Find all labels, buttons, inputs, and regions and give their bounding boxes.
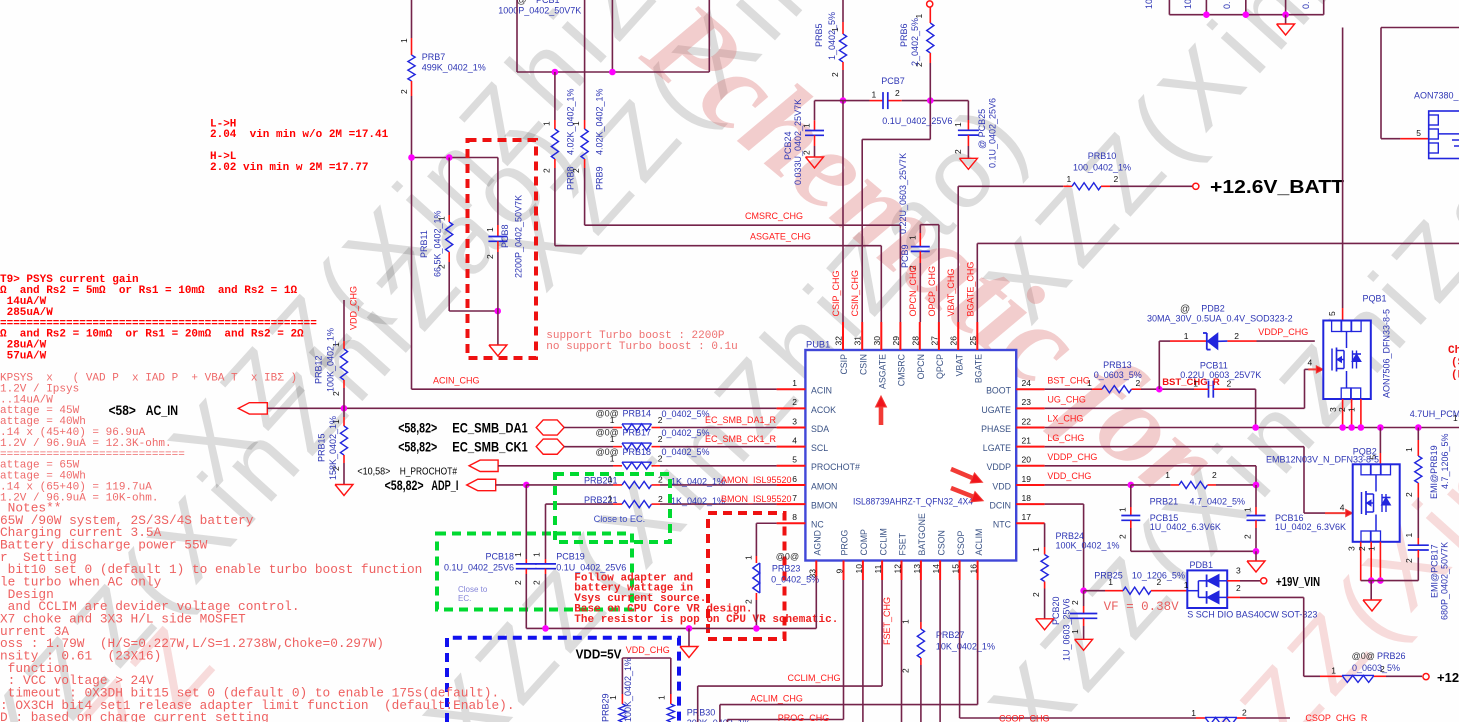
svg-text:SDA: SDA bbox=[811, 424, 829, 434]
svg-text:4.7UH_PCM: 4.7UH_PCM bbox=[1410, 409, 1459, 419]
svg-text:1: 1 bbox=[610, 434, 615, 444]
svg-text:0.1U_0402_25V6: 0.1U_0402_25V6 bbox=[444, 563, 514, 573]
svg-text:2: 2 bbox=[953, 149, 963, 154]
svg-text:PRB15: PRB15 bbox=[317, 433, 327, 462]
svg-text:31: 31 bbox=[853, 336, 863, 346]
svg-text:PCB20: PCB20 bbox=[1051, 596, 1061, 625]
svg-text:VDD_CHG: VDD_CHG bbox=[626, 645, 670, 655]
svg-text:LX_CHG: LX_CHG bbox=[1047, 414, 1083, 424]
svg-text:H_PROCHOT#: H_PROCHOT# bbox=[400, 466, 457, 478]
svg-text:PCB19: PCB19 bbox=[556, 552, 585, 562]
svg-text:EC_SMB_DA1: EC_SMB_DA1 bbox=[452, 420, 528, 435]
svg-text:ADP_I: ADP_I bbox=[431, 478, 458, 493]
svg-text:1: 1 bbox=[901, 619, 911, 624]
svg-text:ISL88739AHRZ-T_QFN32_4X4: ISL88739AHRZ-T_QFN32_4X4 bbox=[853, 497, 973, 507]
svg-text:CSIN: CSIN bbox=[858, 354, 868, 375]
svg-text:ACOK: ACOK bbox=[811, 405, 836, 415]
svg-text:OPCN: OPCN bbox=[916, 354, 926, 379]
svg-text:PCB8: PCB8 bbox=[500, 224, 510, 248]
svg-text:5: 5 bbox=[1416, 128, 1421, 138]
svg-text:100K_0402_1%: 100K_0402_1% bbox=[326, 328, 336, 392]
svg-text:AMON_ISL95520: AMON_ISL95520 bbox=[721, 475, 792, 485]
svg-text:PRB6: PRB6 bbox=[899, 23, 909, 47]
svg-text:4.02K_0402_1%: 4.02K_0402_1% bbox=[595, 88, 605, 155]
svg-text:PROCHOT#: PROCHOT# bbox=[811, 462, 860, 472]
svg-text:BGATE_CHG: BGATE_CHG bbox=[965, 262, 975, 317]
svg-text:1: 1 bbox=[1184, 331, 1189, 341]
svg-text:COMP: COMP bbox=[859, 529, 869, 556]
svg-text:1: 1 bbox=[1404, 533, 1414, 538]
svg-text:12: 12 bbox=[893, 564, 903, 574]
svg-text:VDD: VDD bbox=[992, 481, 1011, 491]
svg-text:FSET: FSET bbox=[898, 532, 908, 555]
svg-text:<58,82>: <58,82> bbox=[398, 420, 437, 435]
svg-text:LG_CHG: LG_CHG bbox=[1047, 433, 1084, 443]
svg-text:VBAT_CHG: VBAT_CHG bbox=[946, 269, 956, 317]
svg-text:1: 1 bbox=[608, 494, 613, 504]
svg-text:20: 20 bbox=[1022, 455, 1032, 465]
svg-text:+12.6V_BATT: +12.6V_BATT bbox=[1210, 177, 1344, 197]
svg-text:1K_0402_1%: 1K_0402_1% bbox=[671, 496, 725, 506]
svg-text:LGATE: LGATE bbox=[983, 443, 1011, 453]
svg-text:S SCH DIO BAS40CW SOT-323: S SCH DIO BAS40CW SOT-323 bbox=[1187, 610, 1317, 620]
svg-text:PROG_CHG: PROG_CHG bbox=[778, 713, 830, 722]
svg-text:2: 2 bbox=[1243, 534, 1253, 539]
svg-text:2_0402_5%: 2_0402_5% bbox=[910, 18, 920, 66]
svg-text:1: 1 bbox=[1191, 708, 1196, 718]
svg-text:18: 18 bbox=[1022, 493, 1032, 503]
svg-text:BMON: BMON bbox=[811, 501, 837, 511]
svg-text:3: 3 bbox=[1347, 546, 1357, 551]
svg-text:0.: 0. bbox=[1301, 1, 1311, 9]
svg-text:SCL: SCL bbox=[811, 443, 828, 453]
svg-text:2200P_0402_50V7K: 2200P_0402_50V7K bbox=[514, 195, 524, 278]
svg-text:25: 25 bbox=[968, 336, 978, 346]
svg-text:ASGATE_CHG: ASGATE_CHG bbox=[750, 232, 811, 242]
svg-text:VDDP_CHG: VDDP_CHG bbox=[1258, 327, 1308, 337]
svg-text:VBAT: VBAT bbox=[954, 353, 964, 376]
svg-text:26: 26 bbox=[949, 336, 959, 346]
svg-text:DCIN: DCIN bbox=[989, 501, 1011, 511]
svg-text:NC: NC bbox=[811, 520, 824, 530]
svg-text:32: 32 bbox=[834, 336, 844, 346]
svg-text:2: 2 bbox=[542, 168, 552, 173]
svg-text:CSON: CSON bbox=[936, 530, 946, 555]
svg-text:23: 23 bbox=[1022, 397, 1032, 407]
svg-text:2: 2 bbox=[901, 668, 911, 673]
svg-text:1: 1 bbox=[914, 14, 924, 19]
svg-text:@0@: @0@ bbox=[596, 447, 619, 457]
svg-text:BATGONE: BATGONE bbox=[917, 513, 927, 555]
svg-text:2: 2 bbox=[1234, 331, 1239, 341]
svg-text:CSOP: CSOP bbox=[956, 530, 966, 555]
svg-text:680P_0402_50V7K: 680P_0402_50V7K bbox=[1440, 542, 1450, 620]
svg-text:EMI@PRB19: EMI@PRB19 bbox=[1429, 445, 1439, 499]
svg-text:1: 1 bbox=[1404, 447, 1414, 452]
svg-text:PRB12: PRB12 bbox=[314, 355, 324, 384]
svg-text:VDD=5V: VDD=5V bbox=[576, 647, 622, 662]
svg-text:100_0402_1%: 100_0402_1% bbox=[1073, 163, 1131, 173]
svg-text:PRB17: PRB17 bbox=[623, 428, 652, 438]
svg-text:PRB29: PRB29 bbox=[601, 693, 611, 722]
svg-text:EC_SMB_DA1_R: EC_SMB_DA1_R bbox=[705, 415, 777, 425]
svg-text:1: 1 bbox=[744, 555, 754, 560]
svg-text:ACLIM_CHG: ACLIM_CHG bbox=[750, 694, 803, 704]
svg-text:2: 2 bbox=[792, 397, 797, 407]
svg-text:@0@: @0@ bbox=[596, 428, 619, 438]
svg-text:5: 5 bbox=[1327, 311, 1337, 316]
svg-text:EC_SMB_CK1_R: EC_SMB_CK1_R bbox=[705, 434, 777, 444]
svg-text:2: 2 bbox=[744, 599, 754, 604]
svg-text:AGND: AGND bbox=[813, 530, 823, 555]
svg-text:1: 1 bbox=[1031, 547, 1041, 552]
svg-text:22: 22 bbox=[1022, 416, 1032, 426]
svg-text:1_0402_5%: 1_0402_5% bbox=[827, 12, 837, 60]
svg-text:7: 7 bbox=[792, 493, 797, 503]
svg-text:PRB5: PRB5 bbox=[814, 23, 824, 47]
svg-text:2.04 vin min w/o 2M =17.41: 2.04 vin min w/o 2M =17.41 bbox=[210, 129, 389, 141]
svg-text:1: 1 bbox=[657, 695, 667, 700]
svg-text:4.7_1206_5%: 4.7_1206_5% bbox=[1440, 433, 1450, 489]
svg-text:VDD_CHG: VDD_CHG bbox=[1047, 471, 1091, 481]
svg-text:FSET_CHG: FSET_CHG bbox=[882, 597, 892, 645]
svg-text:VDDP: VDDP bbox=[987, 462, 1012, 472]
svg-text:PCB7: PCB7 bbox=[881, 76, 905, 86]
svg-text:1: 1 bbox=[1331, 666, 1336, 676]
svg-text:2: 2 bbox=[1031, 592, 1041, 597]
svg-text:10: 10 bbox=[1183, 0, 1193, 9]
svg-text:2: 2 bbox=[1236, 583, 1241, 593]
svg-text:0.: 0. bbox=[1222, 1, 1232, 9]
svg-text:CSOP_CHG_R: CSOP_CHG_R bbox=[1305, 713, 1368, 722]
svg-text:8: 8 bbox=[792, 512, 797, 522]
svg-text:+12.6: +12.6 bbox=[1437, 670, 1459, 685]
svg-text:1: 1 bbox=[792, 378, 797, 388]
svg-text:CCLIM: CCLIM bbox=[878, 528, 888, 555]
svg-text:0_0603_5%: 0_0603_5% bbox=[1094, 370, 1142, 380]
svg-text:0_0603_5%: 0_0603_5% bbox=[1352, 663, 1400, 673]
svg-text:D : based on charge current se: D : based on charge current setting bbox=[0, 710, 269, 722]
svg-text:28: 28 bbox=[910, 336, 920, 346]
svg-text:11: 11 bbox=[873, 564, 883, 573]
svg-text:0.1U_0402_25V6: 0.1U_0402_25V6 bbox=[556, 563, 626, 573]
svg-text:PCB11: PCB11 bbox=[1200, 361, 1228, 371]
svg-text:1: 1 bbox=[513, 552, 523, 557]
svg-text:4: 4 bbox=[1307, 358, 1312, 368]
svg-text:15: 15 bbox=[951, 564, 961, 574]
svg-text:10_1206_5%: 10_1206_5% bbox=[1132, 571, 1185, 581]
svg-text:2: 2 bbox=[571, 168, 581, 173]
svg-text:1: 1 bbox=[610, 453, 615, 463]
svg-text:EMB12N03V_N_DFN33-8-5: EMB12N03V_N_DFN33-8-5 bbox=[1266, 455, 1379, 465]
svg-text:2: 2 bbox=[513, 580, 523, 585]
svg-text:BOOT: BOOT bbox=[986, 386, 1012, 396]
svg-text:UGATE: UGATE bbox=[981, 405, 1011, 415]
svg-text:21: 21 bbox=[1022, 435, 1032, 445]
svg-text:4.7_0402_5%: 4.7_0402_5% bbox=[1190, 496, 1246, 506]
svg-text:4: 4 bbox=[792, 435, 797, 445]
svg-text:AON7506_DFN33-8-5: AON7506_DFN33-8-5 bbox=[1382, 309, 1392, 398]
svg-text:EC_SMB_CK1: EC_SMB_CK1 bbox=[452, 440, 528, 455]
svg-text:ACLIM: ACLIM bbox=[974, 529, 984, 556]
svg-text:2: 2 bbox=[1242, 708, 1247, 718]
svg-text:(D: (D bbox=[1451, 370, 1459, 382]
svg-text:13: 13 bbox=[912, 564, 922, 574]
svg-text:1: 1 bbox=[542, 121, 552, 126]
svg-text:CMSRC_CHG: CMSRC_CHG bbox=[745, 211, 803, 221]
svg-text:ACIN_CHG: ACIN_CHG bbox=[433, 376, 480, 386]
svg-text:OPCN_CHG: OPCN_CHG bbox=[908, 265, 918, 316]
svg-text:1U_0603_25V6: 1U_0603_25V6 bbox=[1062, 598, 1072, 661]
svg-text:1: 1 bbox=[1184, 580, 1189, 590]
svg-text:2: 2 bbox=[895, 88, 900, 98]
svg-text:1000P_0402_50V7K: 1000P_0402_50V7K bbox=[498, 5, 581, 15]
svg-text:AC_IN: AC_IN bbox=[146, 403, 178, 418]
svg-text:0.1U_0402_25V6: 0.1U_0402_25V6 bbox=[882, 116, 952, 126]
svg-text:PRB26: PRB26 bbox=[1377, 651, 1406, 661]
svg-text:@0@: @0@ bbox=[596, 409, 619, 419]
svg-text:10: 10 bbox=[854, 564, 864, 574]
svg-text:2.02 vin min w 2M =17.77: 2.02 vin min w 2M =17.77 bbox=[210, 162, 368, 174]
svg-text:1: 1 bbox=[1366, 546, 1376, 551]
svg-text:2: 2 bbox=[485, 254, 495, 259]
svg-text:1: 1 bbox=[953, 122, 963, 127]
svg-text:100K_0402_1%: 100K_0402_1% bbox=[1056, 541, 1120, 551]
svg-text:0.1U_0402_25V6: 0.1U_0402_25V6 bbox=[988, 98, 998, 168]
svg-text:2: 2 bbox=[1227, 379, 1232, 389]
svg-text:PRB201: PRB201 bbox=[584, 476, 618, 486]
svg-text:PRB7: PRB7 bbox=[422, 52, 446, 62]
svg-text:158K_0402_1%: 158K_0402_1% bbox=[328, 416, 338, 480]
svg-text:2: 2 bbox=[658, 494, 663, 504]
svg-text:57uA/W: 57uA/W bbox=[0, 351, 47, 363]
svg-text:ASGATE: ASGATE bbox=[878, 354, 888, 389]
svg-text:100K_0402_1%: 100K_0402_1% bbox=[623, 658, 633, 722]
svg-text:1: 1 bbox=[1243, 507, 1253, 512]
svg-text:AMON: AMON bbox=[811, 481, 837, 491]
svg-text:Close to EC.: Close to EC. bbox=[594, 514, 646, 524]
svg-text:19: 19 bbox=[1022, 474, 1032, 484]
svg-text:EC.: EC. bbox=[458, 594, 471, 603]
svg-text:PRB13: PRB13 bbox=[1103, 360, 1132, 370]
svg-text:1: 1 bbox=[872, 90, 877, 100]
svg-text:VF = 0.38V: VF = 0.38V bbox=[1104, 600, 1180, 614]
svg-text:3: 3 bbox=[792, 416, 797, 426]
svg-text:16: 16 bbox=[969, 564, 979, 574]
svg-text:1: 1 bbox=[908, 235, 918, 240]
svg-text:1: 1 bbox=[1117, 507, 1127, 512]
svg-text:<58,82>: <58,82> bbox=[385, 478, 424, 493]
svg-text:0_0402_5%: 0_0402_5% bbox=[662, 447, 710, 457]
svg-text:2: 2 bbox=[802, 150, 812, 155]
svg-text:PROG: PROG bbox=[840, 529, 850, 555]
svg-text:0_0402_5%: 0_0402_5% bbox=[662, 428, 710, 438]
svg-text:24: 24 bbox=[1022, 378, 1032, 388]
svg-text:2: 2 bbox=[1117, 534, 1127, 539]
svg-text:3: 3 bbox=[1236, 566, 1241, 576]
svg-text:VDD_CHG: VDD_CHG bbox=[349, 286, 359, 330]
svg-text:PHASE: PHASE bbox=[981, 424, 1011, 434]
svg-text:30: 30 bbox=[872, 336, 882, 346]
svg-text:<58>: <58> bbox=[109, 403, 136, 418]
svg-text:27: 27 bbox=[929, 336, 939, 346]
svg-text:1: 1 bbox=[1346, 407, 1356, 412]
svg-text:1: 1 bbox=[532, 552, 542, 557]
svg-text:30MA_30V_0.5UA_0.4V_SOD323-2: 30MA_30V_0.5UA_0.4V_SOD323-2 bbox=[1147, 314, 1293, 324]
svg-text:CCLIM_CHG: CCLIM_CHG bbox=[788, 673, 841, 683]
svg-text:PQB1: PQB1 bbox=[1363, 294, 1387, 304]
svg-text:CSIP: CSIP bbox=[839, 354, 849, 375]
svg-text:AON7380_D: AON7380_D bbox=[1414, 91, 1459, 101]
svg-text:PCB1: PCB1 bbox=[536, 0, 560, 5]
svg-text:Close to: Close to bbox=[458, 585, 488, 594]
svg-text:499K_0402_1%: 499K_0402_1% bbox=[422, 63, 486, 73]
svg-text:2: 2 bbox=[532, 580, 542, 585]
svg-text:PRB11: PRB11 bbox=[419, 230, 429, 258]
svg-text:10: 10 bbox=[1144, 0, 1154, 9]
svg-text:1U_0402_6.3V6K: 1U_0402_6.3V6K bbox=[1275, 522, 1346, 532]
svg-text:0.22U_0603_25V7K: 0.22U_0603_25V7K bbox=[898, 153, 908, 234]
svg-text:1: 1 bbox=[1193, 379, 1198, 389]
svg-text:4: 4 bbox=[1340, 502, 1345, 512]
svg-text:no support Turbo boost : 0.1u: no support Turbo boost : 0.1u bbox=[546, 341, 737, 353]
svg-text:PDB2: PDB2 bbox=[1201, 304, 1225, 314]
svg-text:PUB1: PUB1 bbox=[806, 340, 830, 350]
svg-text:PCB24: PCB24 bbox=[783, 131, 793, 160]
svg-text:2: 2 bbox=[658, 434, 663, 444]
svg-text:1: 1 bbox=[571, 121, 581, 126]
svg-text:PRB14: PRB14 bbox=[623, 409, 652, 419]
svg-text:1: 1 bbox=[1165, 470, 1170, 480]
svg-text:0_0402_5%: 0_0402_5% bbox=[771, 575, 819, 585]
svg-text:CSOP_CHG: CSOP_CHG bbox=[999, 714, 1050, 722]
svg-text:UG_CHG: UG_CHG bbox=[1047, 395, 1086, 405]
svg-text:1: 1 bbox=[802, 123, 812, 128]
svg-text:PRB21: PRB21 bbox=[1150, 496, 1179, 506]
svg-text:Ch: Ch bbox=[1448, 345, 1459, 357]
svg-text:0.033U_0402_25V7K: 0.033U_0402_25V7K bbox=[793, 99, 803, 185]
svg-text:PRB10: PRB10 bbox=[1088, 151, 1117, 161]
svg-text:OPCP_CHG: OPCP_CHG bbox=[927, 266, 937, 317]
svg-text:1: 1 bbox=[485, 227, 495, 232]
svg-text:2: 2 bbox=[658, 453, 663, 463]
svg-text:PRB24: PRB24 bbox=[1056, 531, 1085, 541]
svg-text:BMON_ISL95520: BMON_ISL95520 bbox=[721, 494, 792, 504]
svg-text:1K_0402_1%: 1K_0402_1% bbox=[671, 477, 725, 487]
svg-text:@0@: @0@ bbox=[1352, 651, 1375, 661]
svg-text:2: 2 bbox=[1114, 174, 1119, 184]
svg-text:PRB23: PRB23 bbox=[772, 564, 801, 574]
svg-text:2: 2 bbox=[399, 89, 409, 94]
svg-text:CSIP_CHG: CSIP_CHG bbox=[831, 270, 841, 316]
svg-text:EMI@PCB17: EMI@PCB17 bbox=[1430, 544, 1440, 598]
svg-text:9: 9 bbox=[835, 569, 845, 574]
svg-text:6: 6 bbox=[792, 474, 797, 484]
svg-text:14: 14 bbox=[931, 564, 941, 574]
svg-text:PCB18: PCB18 bbox=[485, 552, 514, 562]
svg-text:1: 1 bbox=[399, 38, 409, 43]
svg-text:<10,58>: <10,58> bbox=[357, 466, 390, 478]
svg-text:29: 29 bbox=[891, 336, 901, 346]
svg-text:1: 1 bbox=[1453, 413, 1458, 423]
svg-text:(S: (S bbox=[1451, 357, 1459, 369]
svg-text:1U_0402_6.3V6K: 1U_0402_6.3V6K bbox=[1150, 522, 1221, 532]
svg-text:<58,82>: <58,82> bbox=[398, 440, 437, 455]
svg-text:ACIN: ACIN bbox=[811, 386, 832, 396]
svg-text:17: 17 bbox=[1022, 512, 1032, 522]
svg-text:2: 2 bbox=[1212, 470, 1217, 480]
svg-text:CMSRC: CMSRC bbox=[897, 353, 907, 386]
svg-text:PRB221: PRB221 bbox=[584, 495, 618, 505]
svg-text:2: 2 bbox=[1404, 492, 1414, 497]
svg-text:NTC: NTC bbox=[993, 520, 1012, 530]
svg-text:PRB30: PRB30 bbox=[687, 708, 716, 718]
svg-text:BGATE: BGATE bbox=[974, 354, 984, 383]
svg-text:VDDP_CHG: VDDP_CHG bbox=[1047, 452, 1097, 462]
svg-text:CSIN_CHG: CSIN_CHG bbox=[850, 270, 860, 317]
svg-text:QPCP: QPCP bbox=[935, 354, 945, 379]
svg-text:@ PCB25: @ PCB25 bbox=[977, 109, 987, 149]
svg-text:+19V_VIN: +19V_VIN bbox=[1276, 574, 1320, 589]
svg-text:PDB1: PDB1 bbox=[1190, 560, 1214, 570]
svg-text:0.22U_0603_25V7K: 0.22U_0603_25V7K bbox=[1180, 370, 1261, 380]
svg-text:10K_0402_1%: 10K_0402_1% bbox=[936, 642, 995, 652]
svg-text:2: 2 bbox=[830, 72, 840, 77]
svg-text:PCB9: PCB9 bbox=[900, 244, 910, 268]
svg-text:PRB9: PRB9 bbox=[595, 166, 605, 190]
svg-text:PRB25: PRB25 bbox=[1094, 571, 1123, 581]
svg-text:1: 1 bbox=[1067, 174, 1072, 184]
svg-text:PRB18: PRB18 bbox=[623, 447, 652, 457]
svg-text:BST_CHG: BST_CHG bbox=[1047, 375, 1090, 385]
svg-text:@0@: @0@ bbox=[776, 552, 799, 562]
svg-text:5: 5 bbox=[792, 455, 797, 465]
svg-text:2: 2 bbox=[1404, 558, 1414, 563]
svg-text:2: 2 bbox=[658, 415, 663, 425]
svg-text:0_0402_5%: 0_0402_5% bbox=[662, 409, 710, 419]
svg-text:66.5K_0402_1%: 66.5K_0402_1% bbox=[433, 210, 443, 277]
svg-text:1: 1 bbox=[610, 415, 615, 425]
